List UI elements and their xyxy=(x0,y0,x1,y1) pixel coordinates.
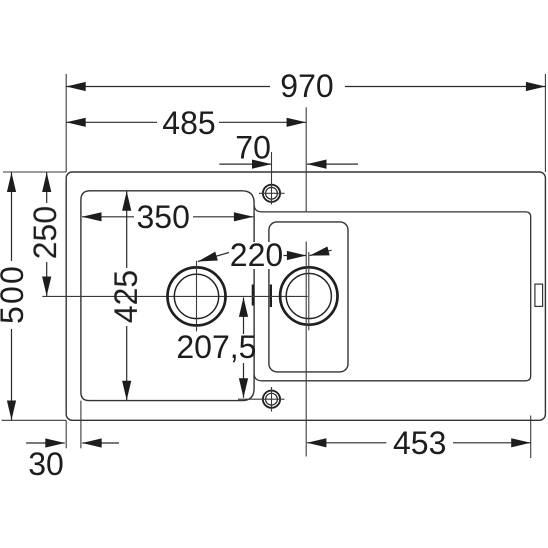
small drain outer circle xyxy=(280,267,337,324)
extension line recess right edge down xyxy=(530,416,532,459)
extension line sink centre lower xyxy=(305,242,307,457)
svg-text:485: 485 xyxy=(162,105,215,141)
top faucet hole xyxy=(259,152,285,205)
svg-text:500: 500 xyxy=(0,264,30,324)
dimension 970 xyxy=(66,68,545,104)
extension line right (sink right edge up) xyxy=(544,74,546,172)
small drain inner circle xyxy=(286,273,331,318)
horizontal centerline through drains xyxy=(42,295,308,297)
main bowl xyxy=(81,191,254,401)
dimension 350 xyxy=(82,199,253,235)
main drain vertical centerline xyxy=(196,261,198,332)
extension line rim top to left xyxy=(3,171,66,173)
dimension 70 xyxy=(219,130,358,166)
dimension 425 (rotated) xyxy=(108,191,144,400)
main drain inner circle xyxy=(174,274,218,318)
small half bowl xyxy=(269,222,348,372)
overflow slot on right rim xyxy=(535,284,543,306)
svg-text:350: 350 xyxy=(137,199,190,235)
dimension 30 xyxy=(26,443,119,482)
dimension 250 (rotated) xyxy=(27,173,63,297)
divider tick right xyxy=(270,285,272,308)
extension line sink centre upper xyxy=(305,107,307,212)
dimension 500 (rotated) xyxy=(0,173,30,421)
drainer recess outline xyxy=(254,205,531,380)
extension line sink left edge down xyxy=(65,420,67,448)
sink outer outline 970x500 xyxy=(66,172,545,420)
main drain outer circle xyxy=(168,267,226,325)
svg-text:425: 425 xyxy=(108,270,144,323)
svg-text:250: 250 xyxy=(27,206,63,259)
extension line rim bottom to left xyxy=(2,419,67,421)
divider tick left xyxy=(252,285,254,306)
dimension 220 xyxy=(198,237,332,273)
svg-text:207,5: 207,5 xyxy=(176,329,256,365)
svg-text:30: 30 xyxy=(28,446,64,482)
dimension 207,5 xyxy=(176,297,256,397)
dimension 485 xyxy=(66,105,306,141)
extension line bowl left edge down xyxy=(80,401,82,449)
bottom faucet hole xyxy=(238,387,285,412)
extension line left (sink left edge up) xyxy=(65,74,67,172)
dimension 453 xyxy=(307,425,531,461)
svg-text:970: 970 xyxy=(280,68,333,104)
svg-text:70: 70 xyxy=(235,130,271,166)
svg-text:220: 220 xyxy=(230,237,283,273)
small drain vertical centerline xyxy=(308,252,310,330)
svg-text:453: 453 xyxy=(393,425,446,461)
